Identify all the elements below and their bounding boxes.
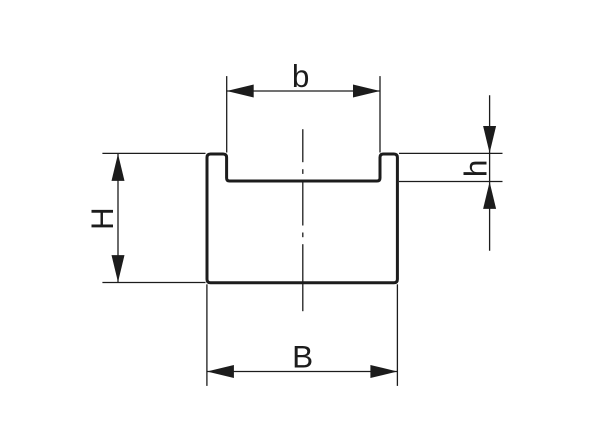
- extension line H top: [102, 152, 205, 154]
- arrowhead B right: [370, 365, 397, 378]
- U-channel profile outline: [207, 154, 397, 283]
- svg-text:b: b: [292, 58, 310, 94]
- extension line H bottom: [102, 282, 205, 284]
- extension line b right: [379, 76, 381, 152]
- dimension label h (rotated): [458, 160, 494, 178]
- dimension line B: [207, 371, 398, 373]
- arrowhead H top: [112, 154, 125, 181]
- centerline (vertical dash-dot axis): [302, 129, 304, 311]
- svg-text:B: B: [292, 338, 313, 374]
- extension line b left: [226, 76, 228, 152]
- dimension line b: [227, 90, 380, 92]
- extension line B left: [206, 284, 208, 386]
- extension line h bottom: [399, 181, 503, 183]
- svg-text:h: h: [458, 160, 494, 178]
- svg-text:H: H: [84, 207, 120, 230]
- arrowhead B left: [207, 365, 234, 378]
- dimension label B: [292, 338, 313, 374]
- arrowhead h top: [483, 126, 496, 153]
- dimension line h: [489, 95, 491, 251]
- dimension line H: [117, 153, 119, 282]
- arrowhead b left: [227, 85, 254, 98]
- arrowhead H bottom: [112, 255, 125, 282]
- arrowhead h bottom: [483, 182, 496, 209]
- dimension label H (rotated): [84, 207, 120, 230]
- extension line h top: [399, 152, 503, 154]
- extension line B right: [396, 284, 398, 386]
- arrowhead b right: [353, 85, 380, 98]
- dimension label b: [292, 58, 310, 94]
